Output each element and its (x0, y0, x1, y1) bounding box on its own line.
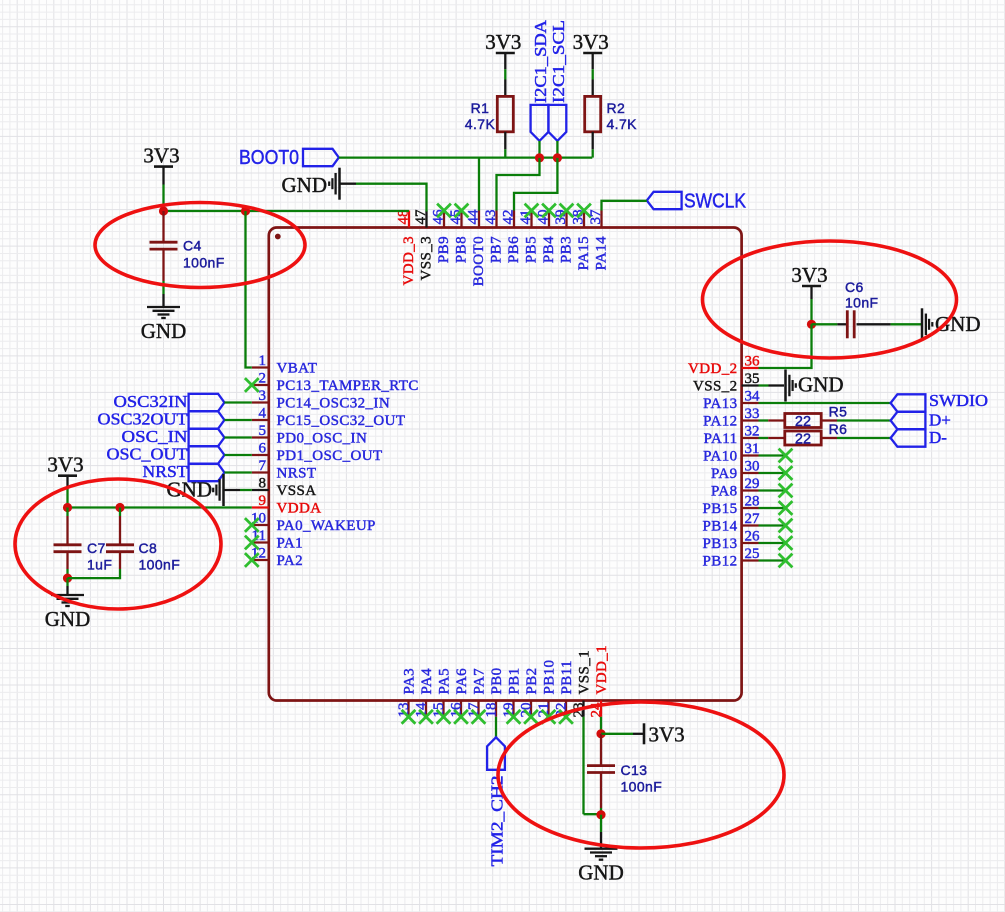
no-connect pin 31 (779, 449, 793, 463)
junction (553, 153, 562, 162)
pin 33 PA12 stub (742, 419, 759, 421)
global label SWDIO flag (891, 394, 926, 411)
resistor R5 left pin (768, 419, 785, 421)
wire SCL tip (556, 141, 558, 158)
pin 39 PB3 stub (565, 211, 567, 228)
global label OSC32OUT flag (189, 411, 225, 428)
pin 25 no-connect wire (759, 559, 786, 561)
svg-text:3V3: 3V3 (649, 723, 685, 747)
no-connect pin 19 (507, 710, 521, 724)
pin 40 PB4 stub (548, 211, 550, 228)
resistor R2 bottom pin (592, 132, 594, 150)
svg-text:5: 5 (259, 423, 267, 439)
svg-text:C6: C6 (845, 279, 864, 295)
no-connect pin 12 (245, 553, 259, 567)
no-connect pin 10 (245, 518, 259, 532)
resistor R2 (585, 96, 601, 131)
svg-text:7: 7 (259, 458, 267, 474)
wire to pin 1 VBAT (246, 211, 252, 368)
wire R6 to D- (837, 437, 891, 439)
wire 3V3 to node (162, 167, 164, 185)
capacitor C4 (150, 242, 178, 249)
pin 36 VDD_2 stub (742, 367, 759, 369)
svg-text:GND: GND (45, 607, 91, 631)
pin 27 PB14 stub (742, 524, 759, 526)
no-connect pin 29 (779, 484, 793, 498)
svg-text:PB5: PB5 (524, 236, 540, 263)
wire (759, 437, 769, 439)
svg-text:R2: R2 (607, 100, 626, 116)
wire (66, 578, 68, 586)
resistor R5 (785, 414, 821, 428)
svg-text:100nF: 100nF (621, 778, 663, 794)
resistor R1 top pin (504, 80, 506, 97)
resistor R2 top pin (592, 80, 594, 97)
no-connect pin 11 (245, 536, 259, 550)
svg-text:3: 3 (259, 388, 267, 404)
capacitor C7 (54, 545, 82, 552)
wire OSC32IN to pin 3 (224, 401, 251, 403)
svg-text:8: 8 (259, 476, 267, 492)
svg-text:25: 25 (745, 546, 760, 562)
no-connect pin 40 (542, 204, 556, 218)
no-connect pin 17 (472, 710, 486, 724)
no-connect pin 27 (779, 519, 793, 533)
no-connect pin 46 (437, 204, 451, 218)
junction (63, 574, 72, 583)
power flag 3V3 (C4) (143, 143, 179, 167)
pin 31 no-connect wire (759, 454, 786, 456)
junction (807, 320, 816, 329)
svg-text:22: 22 (795, 414, 811, 430)
svg-text:R5: R5 (829, 404, 848, 420)
no-connect pin 22 (559, 710, 573, 724)
capacitor C7 bottom lead (66, 552, 68, 569)
pin 30 no-connect wire (759, 472, 786, 474)
capacitor C6 right lead (857, 323, 891, 325)
resistor R1 bottom pin (504, 132, 506, 150)
global label OSC_OUT flag (189, 446, 225, 463)
wire (162, 281, 164, 294)
wire SWCLK to pin 37 (602, 201, 647, 211)
wire (759, 384, 769, 386)
svg-text:PA1: PA1 (277, 536, 304, 552)
svg-text:VDDA: VDDA (277, 501, 322, 517)
wire (600, 815, 602, 832)
svg-text:3V3: 3V3 (573, 30, 609, 54)
resistor R6 (785, 431, 821, 445)
svg-text:31: 31 (745, 441, 760, 457)
pin 2 PC13_TAMPER_RTC stub (252, 384, 269, 386)
svg-text:34: 34 (745, 389, 761, 405)
capacitor C13 (587, 766, 615, 773)
pin 15 PA5 stub (442, 701, 444, 717)
resistor R5 right pin (821, 419, 837, 421)
junction (596, 729, 605, 738)
svg-text:VDD_1: VDD_1 (594, 645, 610, 695)
svg-text:GND: GND (141, 319, 187, 343)
svg-text:PB9: PB9 (436, 236, 452, 263)
svg-text:PA14: PA14 (594, 236, 610, 270)
svg-text:OSC32IN: OSC32IN (114, 392, 188, 411)
svg-text:26: 26 (745, 529, 761, 545)
highlight ellipse around C6 (703, 241, 957, 358)
svg-text:27: 27 (745, 511, 761, 527)
wire pin 18 to TIM2_CH2 (495, 717, 497, 738)
wire (592, 149, 594, 157)
svg-text:PB7: PB7 (489, 236, 505, 263)
wire (891, 323, 922, 325)
junction (115, 503, 124, 512)
pin 23 VSS_1 stub (582, 701, 584, 717)
wire OSC32OUT to pin 4 (224, 419, 251, 421)
pin 13 PA3 stub (407, 701, 409, 717)
svg-text:OSC32OUT: OSC32OUT (98, 410, 189, 429)
no-connect pin 21 (542, 710, 556, 724)
junction (159, 206, 168, 215)
svg-text:30: 30 (745, 459, 760, 475)
pin 22 PB11 stub (565, 701, 567, 717)
wire OSC_OUT to pin 6 (224, 454, 251, 456)
svg-text:PD1_OSC_OUT: PD1_OSC_OUT (277, 448, 383, 464)
pin 3 PC14_OSC32_IN stub (252, 401, 269, 403)
svg-text:C8: C8 (139, 540, 158, 556)
svg-text:22: 22 (795, 431, 811, 447)
3V3 lead (66, 476, 68, 489)
svg-text:PB3: PB3 (559, 236, 575, 263)
ground (C7/C8) (45, 595, 91, 631)
pin 1 VBAT stub (252, 366, 269, 368)
svg-text:C7: C7 (87, 540, 106, 556)
pin 5 PD0_OSC_IN stub (252, 436, 269, 438)
ground (C6) (922, 308, 981, 340)
svg-text:PA4: PA4 (419, 668, 435, 695)
svg-text:SWCLK: SWCLK (684, 191, 747, 213)
wire (240, 489, 252, 491)
resistor R6 right pin (821, 437, 837, 439)
junction (596, 810, 605, 819)
svg-text:PB2: PB2 (524, 667, 540, 694)
svg-text:4.7K: 4.7K (607, 116, 638, 132)
svg-text:100nF: 100nF (183, 254, 225, 270)
global label TIM2_CH2 flag (487, 737, 505, 770)
svg-text:PA0_WAKEUP: PA0_WAKEUP (277, 518, 376, 534)
svg-text:28: 28 (745, 494, 760, 510)
no-connect pin 2 (245, 378, 259, 392)
pin 45 PB8 stub (460, 211, 462, 228)
wire (66, 569, 68, 578)
power flag 3V3 (R2) (573, 30, 609, 54)
svg-text:4: 4 (259, 406, 267, 422)
pin 27 no-connect wire (759, 524, 786, 526)
R1 3V3 lead (504, 53, 506, 69)
wire (810, 299, 812, 324)
no-connect pin 15 (437, 710, 451, 724)
svg-text:6: 6 (259, 441, 267, 457)
wire VDDA rail (68, 506, 252, 508)
pin 7 NRST stub (252, 471, 269, 473)
capacitor C8 bottom lead (119, 552, 121, 569)
wire (504, 149, 506, 157)
wire BOOT0 to R1/R2 net (339, 156, 593, 158)
svg-text:VSS_2: VSS_2 (693, 379, 738, 395)
svg-text:33: 33 (745, 406, 760, 422)
svg-text:VSS_1: VSS_1 (577, 650, 593, 695)
svg-text:TIM2_CH2: TIM2_CH2 (487, 776, 506, 867)
wire R5 to D+ (837, 419, 891, 421)
svg-text:PA10: PA10 (703, 449, 737, 465)
wire SDA tip (538, 141, 540, 158)
svg-text:D-: D- (929, 428, 947, 447)
gnd VSS_3 lead (340, 183, 357, 185)
svg-text:SWDIO: SWDIO (929, 391, 988, 410)
no-connect pin 20 (524, 710, 538, 724)
wire (162, 185, 164, 212)
svg-text:1: 1 (259, 353, 267, 369)
no-connect pin 28 (779, 501, 793, 515)
ground (C13) (578, 849, 624, 885)
svg-text:PB13: PB13 (703, 536, 738, 552)
wire (592, 69, 594, 79)
wire SCL to pin 42 (514, 158, 557, 211)
svg-text:PB1: PB1 (507, 667, 523, 694)
no-connect pin 13 (402, 710, 416, 724)
3V3 lead (633, 733, 643, 735)
svg-text:42: 42 (501, 210, 517, 225)
svg-text:PC13_TAMPER_RTC: PC13_TAMPER_RTC (277, 378, 419, 394)
svg-text:PA5: PA5 (437, 668, 453, 695)
svg-text:PD0_OSC_IN: PD0_OSC_IN (277, 431, 368, 447)
wire OSC_IN to pin 5 (224, 436, 251, 438)
ground (VSSA) (167, 474, 224, 506)
svg-text:PB0: PB0 (489, 667, 505, 694)
gnd lead (769, 384, 785, 386)
capacitor C8 (106, 545, 134, 552)
no-connect pin 14 (419, 710, 433, 724)
svg-text:PA12: PA12 (703, 414, 737, 430)
pin 9 VDDA stub (252, 506, 269, 508)
pin 11 PA1 stub (252, 541, 269, 543)
svg-text:32: 32 (745, 424, 760, 440)
svg-text:BOOT0: BOOT0 (239, 147, 299, 169)
svg-text:PB4: PB4 (541, 236, 557, 263)
svg-text:GND: GND (282, 173, 328, 197)
svg-text:37: 37 (588, 209, 604, 225)
wire (504, 69, 506, 79)
svg-text:GND: GND (935, 312, 981, 336)
pin 35 VSS_2 stub (742, 384, 759, 386)
svg-text:GND: GND (578, 861, 624, 885)
svg-text:PB11: PB11 (559, 660, 575, 694)
pin 44 BOOT0 stub (478, 211, 480, 228)
capacitor C8 top lead (119, 516, 121, 545)
svg-text:D+: D+ (929, 411, 951, 430)
wire pin 24 VDD_1 down (600, 717, 602, 734)
pin 18 PB0 stub (495, 701, 497, 717)
pin 41 PB5 stub (530, 211, 532, 228)
wire (759, 419, 769, 421)
gnd lead (162, 294, 164, 307)
3V3 lead (810, 286, 812, 299)
ground (VSS_2) (786, 370, 844, 402)
wire (584, 813, 602, 815)
IC U1 anchor dot (275, 234, 281, 240)
svg-text:3V3: 3V3 (47, 453, 83, 477)
wire SDA to pin 43 (497, 158, 540, 211)
global label I2C1_SCL flag (549, 105, 567, 141)
pin 19 PB1 stub (512, 701, 514, 717)
capacitor C7 top lead (66, 516, 68, 545)
pin 38 PA15 stub (583, 211, 585, 228)
pin 34 PA13 stub (742, 402, 759, 404)
wire GND to pin 47 (356, 184, 427, 212)
svg-text:PA2: PA2 (277, 553, 304, 569)
power flag 3V3 (C13) (644, 723, 685, 747)
svg-text:9: 9 (259, 493, 267, 509)
pin 46 PB9 stub (443, 211, 445, 228)
svg-text:C4: C4 (183, 238, 202, 254)
pin 20 PB2 stub (530, 701, 532, 717)
pin 26 no-connect wire (759, 542, 786, 544)
svg-text:VDD_3: VDD_3 (401, 236, 417, 286)
wire (600, 808, 602, 815)
capacitor C4 top lead (162, 211, 164, 242)
pin 14 PA4 stub (425, 701, 427, 717)
pin 10 PA0_WAKEUP stub (252, 524, 269, 526)
svg-text:10nF: 10nF (845, 294, 879, 310)
pin 6 PD1_OSC_OUT stub (252, 454, 269, 456)
capacitor C6 left lead (837, 323, 847, 325)
svg-text:3V3: 3V3 (791, 263, 827, 287)
global label SWCLK flag (647, 192, 682, 209)
global label D+ flag (891, 412, 926, 429)
no-connect pin 25 (779, 554, 793, 568)
pin 47 VSS_3 stub (425, 211, 427, 228)
wire pin 23 VSS_1 down (582, 717, 584, 814)
svg-text:PA15: PA15 (576, 236, 592, 270)
global label I2C1_SDA flag (531, 105, 549, 141)
svg-text:OSC_IN: OSC_IN (122, 427, 188, 446)
resistor R1 (497, 96, 513, 131)
svg-text:R1: R1 (471, 100, 490, 116)
svg-text:PA8: PA8 (711, 484, 738, 500)
svg-text:3V3: 3V3 (485, 30, 521, 54)
power flag 3V3 (C6) (791, 263, 827, 287)
resistor R6 left pin (768, 437, 785, 439)
pin 25 PB12 stub (742, 559, 759, 561)
pin 24 VDD_1 stub (600, 701, 602, 717)
junction (535, 153, 544, 162)
svg-text:2: 2 (259, 371, 267, 387)
svg-text:GND: GND (798, 373, 844, 397)
svg-text:BOOT0: BOOT0 (471, 236, 487, 286)
svg-text:PC14_OSC32_IN: PC14_OSC32_IN (277, 396, 391, 412)
svg-text:44: 44 (466, 209, 482, 225)
pin 29 no-connect wire (759, 489, 786, 491)
pin 42 PB6 stub (513, 211, 515, 228)
svg-text:VBAT: VBAT (277, 361, 318, 377)
pin 8 VSSA stub (252, 489, 269, 491)
no-connect pin 38 (577, 204, 591, 218)
global label NRST flag (189, 464, 225, 481)
gnd lead (223, 489, 240, 491)
pin 30 PA9 stub (742, 472, 759, 474)
svg-text:18: 18 (484, 703, 500, 718)
svg-text:29: 29 (745, 476, 760, 492)
pin 16 PA6 stub (460, 701, 462, 717)
gnd lead (66, 586, 68, 595)
power flag 3V3 (R1) (485, 30, 521, 54)
junction (241, 206, 250, 215)
wire C8 to C7 gnd (68, 569, 121, 578)
svg-text:PA6: PA6 (454, 668, 470, 695)
pin 32 PA11 stub (742, 437, 759, 439)
wire (119, 508, 121, 517)
pin 28 no-connect wire (759, 507, 786, 509)
svg-text:PB8: PB8 (454, 236, 470, 263)
global label D- flag (891, 429, 926, 446)
svg-text:NRST: NRST (277, 466, 317, 482)
gnd lead (600, 832, 602, 849)
svg-text:VSS_3: VSS_3 (419, 236, 435, 281)
no-connect pin 45 (455, 204, 469, 218)
svg-text:PB12: PB12 (703, 554, 738, 570)
svg-text:36: 36 (745, 354, 761, 370)
pin 28 PB15 stub (742, 507, 759, 509)
global label BOOT0 flag (303, 149, 339, 166)
svg-text:43: 43 (483, 210, 499, 225)
svg-text:3V3: 3V3 (143, 143, 179, 167)
highlight ellipse around C13 (498, 702, 784, 848)
capacitor C4 bottom lead (162, 249, 164, 281)
svg-text:PA3: PA3 (402, 668, 418, 695)
svg-text:OSC_OUT: OSC_OUT (107, 445, 189, 464)
wire BOOT0 down to pin 44 (478, 158, 480, 211)
svg-text:PA11: PA11 (704, 431, 738, 447)
svg-text:PA9: PA9 (711, 466, 738, 482)
capacitor C13 bottom lead (600, 773, 602, 808)
svg-text:VSSA: VSSA (277, 483, 317, 499)
pin 21 PB10 stub (547, 701, 549, 717)
no-connect pin 26 (779, 536, 793, 550)
wire VDD rail C4 to pin 48 (164, 210, 410, 212)
pin 29 PA8 stub (742, 489, 759, 491)
pin 48 VDD_3 stub (408, 211, 410, 228)
highlight ellipse around C7 C8 (15, 479, 221, 609)
svg-text:1uF: 1uF (87, 556, 112, 572)
pin 12 PA2 stub (252, 559, 269, 561)
pin 37 PA14 stub (600, 211, 602, 228)
no-connect pin 41 (525, 204, 539, 218)
no-connect pin 39 (560, 204, 574, 218)
svg-text:PA13: PA13 (703, 396, 737, 412)
svg-text:PB15: PB15 (703, 501, 738, 517)
svg-text:VDD_2: VDD_2 (688, 361, 738, 377)
svg-text:100nF: 100nF (139, 556, 181, 572)
pin 4 PC15_OSC32_OUT stub (252, 419, 269, 421)
pin 43 PB7 stub (495, 211, 497, 228)
R2 3V3 lead (592, 53, 594, 69)
svg-text:PC15_OSC32_OUT: PC15_OSC32_OUT (277, 413, 406, 429)
global label OSC_IN flag (189, 429, 225, 446)
wire (601, 733, 633, 735)
svg-text:PA7: PA7 (472, 668, 488, 695)
svg-text:PB10: PB10 (542, 660, 558, 695)
svg-text:R6: R6 (829, 421, 848, 437)
wire (66, 508, 68, 517)
svg-text:4.7K: 4.7K (465, 116, 496, 132)
wire (66, 489, 68, 508)
